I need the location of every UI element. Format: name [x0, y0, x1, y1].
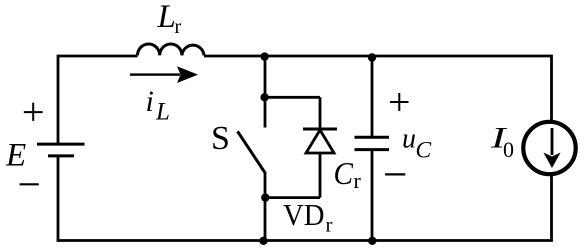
svg-text:u: u	[402, 124, 416, 155]
wire top rail left (E to inductor)	[58, 55, 138, 58]
battery E top plate	[37, 143, 85, 146]
svg-text:0: 0	[503, 137, 514, 162]
svg-text:E: E	[5, 138, 26, 174]
svg-text:i: i	[146, 85, 154, 118]
node: junction dot switch branch / diode top	[260, 93, 268, 101]
wire capacitor branch lower (plate to bottom rail)	[371, 150, 374, 241]
wire left vertical lower (battery to bottom rail)	[57, 156, 60, 241]
label plus at capacitor	[390, 93, 409, 111]
wire right vertical lower (current source to bottom rail)	[550, 174, 553, 241]
battery E bottom plate	[48, 154, 74, 157]
inductor current arrow iL	[130, 66, 198, 83]
wire diode branch bottom horizontal	[265, 196, 320, 199]
svg-text:L: L	[157, 0, 176, 35]
wire bottom rail	[57, 239, 553, 242]
inductor Lr	[138, 44, 205, 55]
wire capacitor branch upper (top rail to plate)	[371, 56, 374, 137]
svg-text:r: r	[326, 213, 333, 237]
capacitor Cr top plate	[355, 136, 390, 139]
capacitor Cr bottom plate	[355, 148, 390, 151]
wire switch branch upper (top rail to upper contact)	[264, 56, 267, 128]
diode VDr cathode bar	[303, 128, 337, 131]
svg-text:VD: VD	[283, 197, 325, 232]
svg-text:S: S	[211, 120, 230, 157]
wire top rail right (inductor to top-right corner)	[204, 55, 552, 58]
wire left vertical upper (corner to battery)	[57, 55, 60, 144]
node: junction dot top rail / capacitor branch	[368, 53, 376, 61]
svg-text:L: L	[155, 99, 170, 126]
svg-text:C: C	[416, 138, 432, 164]
wire right vertical upper (top rail to current source)	[550, 55, 553, 122]
label minus at battery	[20, 183, 39, 185]
svg-text:r: r	[354, 168, 362, 193]
wire diode branch vertical upper	[319, 97, 322, 129]
current source I0 circle	[523, 122, 575, 174]
wire switch branch lower (lower contact to bottom rail)	[264, 172, 267, 241]
label minus at capacitor	[385, 173, 405, 175]
switch S blade	[238, 131, 265, 172]
svg-text:C: C	[334, 156, 354, 191]
label plus at battery	[24, 103, 43, 121]
wire diode branch top horizontal	[265, 96, 320, 99]
current source I0 arrow	[543, 128, 560, 168]
wire diode branch vertical lower	[319, 153, 322, 198]
diode VDr triangle	[306, 130, 334, 153]
node: junction dot switch branch / diode bottom	[261, 193, 269, 201]
node: junction dot top rail / switch branch	[260, 52, 268, 60]
node: junction dot bottom rail / capacitor branch	[368, 237, 376, 245]
node: junction dot bottom rail / switch branch	[259, 237, 267, 245]
svg-text:r: r	[175, 16, 182, 38]
